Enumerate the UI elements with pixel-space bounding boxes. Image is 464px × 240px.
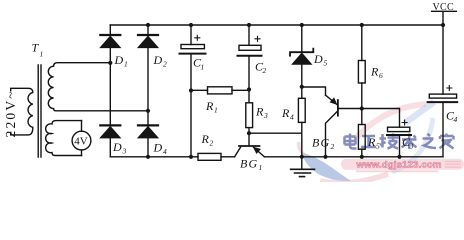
- svg-text:4: 4: [290, 113, 294, 122]
- transistor BG2: [337, 100, 339, 116]
- svg-text:BG: BG: [240, 157, 258, 171]
- svg-text:2: 2: [263, 66, 267, 75]
- char 术: [402, 134, 417, 149]
- svg-text:R: R: [205, 99, 214, 113]
- plus C2: [255, 36, 260, 41]
- svg-text:220V~: 220V~: [3, 89, 18, 137]
- char 电: [345, 134, 357, 149]
- svg-text:D: D: [153, 53, 163, 67]
- svg-text:1: 1: [40, 50, 44, 59]
- wire bottom rail right: [264, 156, 443, 158]
- svg-text:1: 1: [259, 163, 263, 172]
- char 技: [380, 134, 399, 149]
- junction VCC C4: [441, 23, 445, 27]
- watermark swoosh blue crescent: [301, 152, 351, 181]
- wire BG1 base node: [249, 132, 302, 134]
- diode D1: [109, 25, 111, 34]
- svg-text:3: 3: [263, 111, 268, 120]
- node AC left (D1-D3, winding top): [108, 61, 112, 65]
- junction C1 top rail: [189, 23, 193, 27]
- junction C1 bottom rail: [189, 155, 193, 159]
- wire 4V lamp leads: [81, 121, 83, 156]
- watermark swoosh blue top right band: [405, 102, 434, 123]
- lamp 4V circle: [72, 131, 91, 150]
- svg-text:D: D: [114, 53, 124, 67]
- svg-text:R: R: [281, 106, 290, 120]
- junction ground rail: [300, 155, 304, 159]
- svg-text:5: 5: [376, 142, 380, 151]
- junction R1-C2-R3: [247, 87, 251, 91]
- wire D2 anode to D4: [147, 48, 149, 125]
- transformer T1 secondary winding bottom: [46, 121, 82, 156]
- wire top rail: [110, 24, 443, 26]
- svg-text:4: 4: [454, 115, 458, 124]
- svg-text:3: 3: [409, 142, 414, 151]
- wire D1 anode to node: [109, 48, 111, 125]
- svg-text:2: 2: [331, 142, 335, 151]
- wire bottom rail left: [110, 156, 198, 158]
- junction D5 top rail: [300, 23, 304, 27]
- svg-text:2: 2: [210, 139, 214, 148]
- svg-text:BG: BG: [312, 136, 330, 150]
- wire bottom rail mid: [221, 156, 235, 158]
- svg-text:1: 1: [124, 59, 128, 68]
- node AC right (D2-D4, winding bottom): [146, 109, 150, 113]
- junction R5 bottom rail: [360, 155, 364, 159]
- transistor BG1: [239, 145, 260, 147]
- diode D4: [138, 124, 158, 126]
- capacitor C4: [442, 25, 444, 94]
- plus C3: [402, 120, 407, 125]
- junction D5-R4-BG2 emitter: [300, 85, 304, 89]
- svg-text:3: 3: [122, 147, 127, 156]
- junction D4 bottom rail: [146, 155, 150, 159]
- junction D2 top rail: [146, 23, 150, 27]
- svg-text:R: R: [370, 65, 379, 79]
- plus C1: [195, 35, 200, 40]
- resistor R6: [361, 25, 363, 61]
- node BG1 base (R3-R4): [247, 131, 251, 135]
- diode D2: [147, 25, 149, 34]
- char 之: [423, 134, 437, 148]
- watermark swoosh blue right arc: [392, 118, 433, 172]
- svg-text:5: 5: [324, 59, 328, 68]
- capacitor C1: [190, 25, 192, 45]
- char 工: [361, 136, 376, 147]
- plus C4: [447, 86, 452, 91]
- capacitor C3: [362, 109, 400, 128]
- resistor R4: [298, 98, 305, 122]
- resistor R1: [191, 89, 249, 91]
- svg-text:D: D: [153, 141, 163, 155]
- resistor R2: [198, 153, 221, 160]
- svg-text:VCC: VCC: [433, 2, 454, 13]
- svg-text:2: 2: [163, 59, 167, 68]
- svg-text:4V: 4V: [74, 136, 88, 148]
- char 家: [440, 134, 454, 149]
- junction R6 top rail: [360, 23, 364, 27]
- watermark pink stripes right: [445, 162, 461, 168]
- svg-text:R: R: [367, 135, 376, 149]
- svg-text:1: 1: [214, 106, 218, 115]
- svg-text:1: 1: [201, 63, 205, 72]
- junction BG2 collector rail: [323, 155, 327, 159]
- resistor R3: [246, 103, 253, 128]
- svg-text:4: 4: [163, 147, 167, 156]
- transformer T1 core: [38, 65, 41, 157]
- diode D5 zener: [301, 25, 303, 52]
- wire BG2 emitter: [302, 87, 326, 95]
- watermark swoosh pink top arc: [357, 104, 426, 137]
- svg-text:www.dgjs123.com: www.dgjs123.com: [356, 159, 442, 170]
- svg-text:R: R: [255, 105, 264, 119]
- svg-text:D: D: [313, 52, 323, 66]
- junction C3 bottom rail: [397, 155, 401, 159]
- junction C2 top rail: [247, 23, 251, 27]
- watermark pink underline below url: [356, 170, 438, 172]
- diode D3: [100, 124, 120, 126]
- node VCC terminal: [432, 11, 457, 25]
- ground: [301, 157, 303, 169]
- svg-text:6: 6: [379, 71, 383, 80]
- transformer T1 secondary winding top: [48, 63, 148, 111]
- watermark swoosh pink bottom arc: [320, 174, 388, 183]
- junction C1-R1: [189, 88, 193, 92]
- transformer T1 primary winding: [11, 88, 33, 135]
- watermark chinese text 电工技术之家: [345, 134, 454, 149]
- resistor R5: [358, 125, 365, 150]
- svg-text:R: R: [201, 132, 210, 146]
- svg-text:D: D: [112, 140, 122, 154]
- node BG2 base (R6-R5-C3): [360, 106, 364, 110]
- capacitor C2: [248, 25, 250, 45]
- watermark pink band behind url: [341, 159, 464, 170]
